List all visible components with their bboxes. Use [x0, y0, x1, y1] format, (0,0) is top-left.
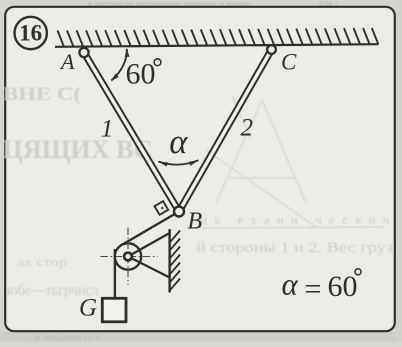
svg-text:ВНЕ С(: ВНЕ С( — [3, 84, 81, 105]
svg-text:16: 16 — [19, 21, 42, 46]
svg-text:C: C — [281, 50, 297, 75]
svg-text:=: = — [305, 272, 322, 305]
svg-text:- и найдено та о: - и найдено та о — [28, 331, 101, 342]
svg-text:60: 60 — [328, 270, 358, 303]
svg-text:α: α — [169, 123, 188, 161]
svg-text:1: 1 — [101, 116, 114, 143]
svg-text:мь еханн ческнч: мь еханн ческнч — [199, 212, 389, 227]
svg-text:α: α — [282, 267, 299, 302]
svg-text:60: 60 — [126, 58, 156, 91]
svg-text:2: 2 — [241, 115, 254, 142]
svg-text:й стороны 1 и 2. Вес груз: й стороны 1 и 2. Вес груз — [196, 240, 393, 256]
svg-text:A: A — [59, 49, 75, 74]
svg-text:ах стор: ах стор — [17, 254, 67, 269]
svg-text:G: G — [79, 295, 97, 322]
svg-text:B: B — [188, 209, 203, 235]
svg-text:ЦЯЩИХ ВС: ЦЯЩИХ ВС — [3, 135, 153, 164]
